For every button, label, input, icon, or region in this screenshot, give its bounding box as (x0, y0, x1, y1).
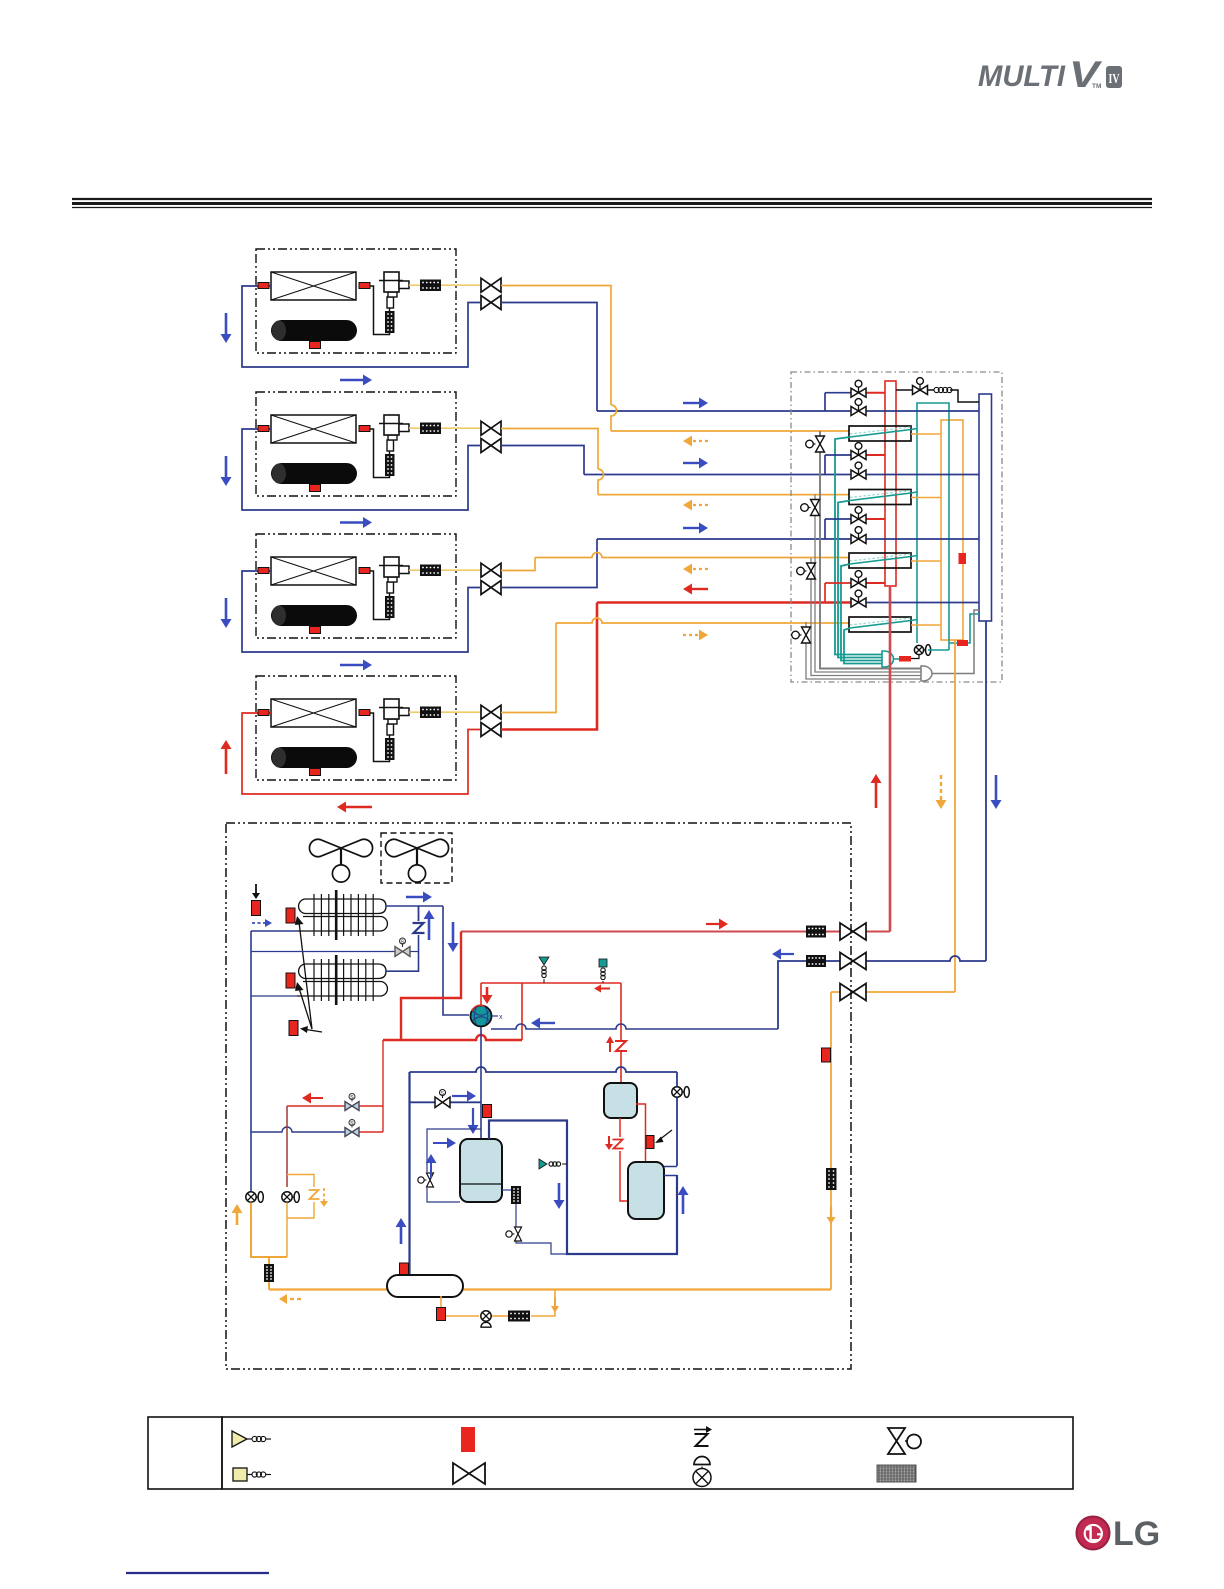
indoor unit 4 liquid pipe to valve (441, 711, 480, 713)
outdoor liquid line (831, 991, 840, 993)
legend check valve symbol (693, 1469, 711, 1487)
unit 1 gas trunk wire (501, 303, 597, 412)
indoor unit 1 heat exchanger (271, 272, 356, 300)
triple horizontal rule (72, 198, 1152, 200)
indoor unit 4 fan cylinder (271, 747, 357, 768)
oil return loop wire (489, 1121, 677, 1255)
defrost solenoid 1 valve (345, 1102, 359, 1111)
flow arrow main liquid (287, 1298, 301, 1300)
oil check valve left (246, 1192, 256, 1202)
indoor unit 3 EEV (389, 593, 391, 596)
HR branch 3 LP solenoid valve (851, 535, 866, 544)
indoor unit 1 liquid strainer (420, 280, 441, 292)
accumulator outlet EEV (515, 1227, 522, 1241)
HR branch 3 EEV (807, 563, 816, 579)
outdoor LP line (866, 956, 986, 961)
sensor on vessel wire B (646, 1136, 654, 1149)
vessel column riser wire (676, 1072, 678, 1086)
vessel1 to vessel2 wire A (619, 1118, 621, 1137)
indoor unit 3 gas service valve (481, 581, 501, 595)
outdoor LP strainer (806, 955, 826, 967)
flow arrow HP trunk (875, 783, 878, 808)
compressor (471, 1006, 492, 1027)
outdoor check valve Z (418, 906, 420, 921)
compressor tail x (492, 1015, 498, 1017)
receiver drain valve (481, 1311, 491, 1321)
high pressure trunk wire (889, 586, 892, 932)
outdoor defrost solenoid valve (395, 947, 410, 957)
flow arrow accumulator inlet (472, 1108, 474, 1125)
oil capillary EEV Z (309, 1190, 320, 1199)
legend sensor symbol (461, 1427, 475, 1452)
indoor unit 3 pipe HX to strainer (370, 571, 390, 620)
indoor unit 1 pipe HX to strainer (370, 286, 390, 335)
flow arrow suction header (540, 1022, 555, 1024)
compressor discharge wire (480, 983, 482, 1005)
outdoor coil2 right wire (386, 952, 419, 971)
indoor unit 1 liquid pipe to valve (441, 284, 480, 286)
indoor unit 4 heat exchanger (271, 699, 356, 727)
flow arrow between unit 1 and 2 (340, 379, 363, 382)
indoor unit 1 sensor below cylinder (310, 342, 321, 349)
flow arrow liquid unit 4 (683, 634, 699, 636)
indoor unit 4 gas service valve (481, 723, 501, 737)
teal sensor square on discharge (599, 959, 607, 967)
flow arrow between unit 2 and 3 (340, 521, 363, 524)
teal sensor triangle on discharge (539, 957, 549, 965)
HR branch 1 liquid out wire (911, 433, 941, 435)
unit 4 gas trunk wire (501, 603, 597, 730)
indoor unit 4 sensor HX right (359, 710, 370, 716)
outdoor liquid service valve (840, 984, 866, 1001)
unit 3 liquid trunk wire (501, 558, 535, 571)
HR unit box (791, 372, 1002, 682)
accumulator level wire (427, 1129, 481, 1172)
flow arrow liquid unit 3 (692, 568, 708, 570)
unit 2 gas trunk wire (501, 446, 584, 475)
indoor unit 2 sensor HX right (359, 426, 370, 432)
flow arrow gas unit 2 (683, 462, 699, 464)
unit 1 liquid trunk wire (501, 286, 611, 406)
flow arrow suction drop (452, 922, 455, 943)
subcool vessel 1 (604, 1083, 637, 1118)
HR branch 1 EEV drop wire (820, 431, 921, 669)
receiver drop wire (408, 1072, 410, 1277)
legend left cell (148, 1417, 222, 1489)
indoor unit 3 gas pipe loop (242, 571, 480, 652)
indoor unit 3 heat exchanger (271, 557, 356, 585)
flow arrow level wire up (430, 1163, 432, 1178)
HR branch 4 wire to HP header (866, 582, 885, 584)
indoor unit 3 flow arrow down (225, 598, 228, 619)
indoor unit 3 liquid pipe to valve (441, 569, 480, 571)
outdoor fan 2 dashed box (381, 833, 452, 883)
HR branch 1 subcool HX (849, 426, 911, 441)
flow arrow receiver drain (554, 1297, 556, 1306)
indoor unit 4 flow arrow up (225, 749, 228, 774)
indoor unit 3 sensor HX right (359, 568, 370, 574)
HR branch 4 EEV drop wire (806, 622, 921, 679)
HR branch 3 wire to HP header (866, 518, 885, 520)
indoor unit 1 flow arrow down (225, 313, 228, 334)
indoor unit 2 liquid pipe to strainer (409, 427, 420, 429)
vessel1 EEV Z (615, 1041, 627, 1051)
liquid trunk wire (954, 640, 956, 992)
accumulator level EEV (427, 1173, 434, 1187)
HR branch 4 liquid out wire (911, 624, 941, 626)
indoor unit 4 liquid strainer (420, 707, 441, 719)
HR branch 2 liquid out wire (911, 497, 941, 499)
vessel2 outlet wires (664, 1166, 677, 1168)
flow arrow level wire right (433, 1142, 447, 1144)
flow arrow LP line (781, 953, 794, 955)
indoor unit 2 EEV strainer vertical (385, 454, 395, 476)
receiver tank (387, 1275, 463, 1297)
HR branch 2 HP solenoid valve (851, 451, 866, 460)
indoor unit 3 liquid strainer (420, 565, 441, 577)
indoor unit 2 pipe HX to strainer (370, 429, 390, 478)
oil return maroon wire (286, 1106, 288, 1187)
indoor unit 1 EEV (389, 308, 391, 311)
oil collect wires (251, 1203, 287, 1258)
HR branch 3 subcool HX (849, 553, 911, 568)
indoor unit 2 box (256, 392, 456, 496)
suction header wire (491, 1024, 778, 1029)
indoor unit 4 liquid pipe to strainer (409, 711, 420, 713)
outdoor sensor s2 (286, 908, 295, 923)
indoor unit 4 box (256, 676, 456, 780)
receiver drain strainer (508, 1311, 530, 1322)
oil capillary wire (287, 1175, 314, 1188)
flow arrow gas unit 3 (683, 527, 699, 529)
flow arrow on discharge header (601, 988, 610, 990)
flow arrow at accumulator solenoid (452, 1095, 467, 1097)
indoor unit 4 EEV (389, 735, 391, 738)
defrost solenoid 2 wire (251, 1127, 345, 1132)
HR branch 3 liquid out wire (911, 560, 941, 562)
HR branch 1 wire to LP header (866, 410, 979, 412)
indoor unit 1 gas service valve (481, 296, 501, 310)
indoor unit 1 sensor HX right (359, 283, 370, 289)
svg-text:x: x (499, 1014, 503, 1021)
legend thermistor gas symbol (232, 1431, 247, 1447)
compressor bottom wire (480, 1027, 482, 1139)
legend outer box (222, 1417, 1073, 1489)
flow arrow between unit 3 and 4 (340, 664, 363, 667)
HR teal OR-junction (882, 651, 894, 667)
legend valve symbol (453, 1463, 485, 1484)
defrost solenoid 2 valve (345, 1128, 359, 1137)
indoor unit 4 pipe HX to strainer (370, 713, 390, 762)
HR branch 2 wire to HP header (866, 454, 885, 456)
HR branch 4 drop wire (824, 583, 826, 603)
flow arrow gas unit 1 (683, 402, 699, 404)
HR branch 2 EEV (811, 500, 820, 516)
sensor at receiver drop (400, 1263, 409, 1277)
sensor on liquid line (822, 1048, 831, 1062)
outdoor coil 1 (299, 899, 386, 914)
flow arrow defrost 1 (311, 1097, 323, 1099)
outdoor defrost solenoid wire (251, 951, 395, 953)
HR sensor on subcool return (957, 640, 968, 646)
outdoor coil2 left stub wire (251, 995, 297, 997)
HR branch 4 wire to LP header (866, 602, 979, 604)
indoor unit 1 liquid service valve (481, 278, 501, 292)
oil-cool header wire (410, 1067, 678, 1072)
indoor unit 2 liquid strainer (420, 423, 441, 435)
HR branch 2 drop wire (824, 455, 826, 475)
indoor unit 1 gas pipe loop (242, 286, 480, 367)
outdoor fan 1 (341, 839, 373, 856)
accumulator inlet solenoid wire (410, 1101, 438, 1103)
HR branch 3 subcool teal wire (841, 564, 882, 661)
low pressure trunk wire (985, 621, 987, 961)
indoor unit 2 sensor HX left (258, 426, 269, 432)
MULTI V logo text (978, 54, 1103, 95)
legend strainer symbol (877, 1465, 916, 1482)
outdoor unit box (226, 823, 851, 1369)
outdoor HP strainer (806, 926, 826, 938)
HR branch 2 subcool teal wire (838, 501, 882, 658)
HR branch 2 wire to LP header (866, 474, 979, 476)
indoor unit 1 EEV strainer vertical (385, 311, 395, 333)
receiver drain wire (441, 1296, 479, 1316)
HR sensor on liquid header (959, 553, 967, 564)
flow arrow into compressor (486, 987, 489, 995)
svg-text:TM: TM (1092, 83, 1101, 90)
indoor unit 2 EEV (389, 451, 391, 454)
flow arrow gas unit 4 (692, 588, 708, 590)
MULTI V IV badge (1106, 66, 1122, 88)
accumulator inlet solenoid valve (435, 1097, 450, 1108)
teal sensor on oil loop (539, 1159, 547, 1169)
HR branch 3 HP solenoid valve (851, 515, 866, 524)
outdoor sensor annotation arrows (299, 922, 312, 1029)
HR branch 4 LP solenoid valve (851, 598, 866, 607)
subcool vessel 2 (628, 1162, 664, 1219)
HR gray OR-junction (921, 666, 932, 681)
indoor unit 4 sensor below cylinder (310, 769, 321, 776)
flow arrow below unit 4 (346, 806, 372, 809)
indoor unit 2 sensor below cylinder (310, 485, 321, 492)
indoor unit 3 fan cylinder (271, 605, 357, 626)
HR branch 3 drop wire (824, 519, 826, 539)
unit 3 gas trunk wire (501, 539, 597, 588)
HR bypass valve (896, 389, 913, 391)
oil drain valve on riser (672, 1087, 682, 1097)
unit 2 liquid trunk wire (501, 429, 598, 470)
outdoor HP service valve (840, 923, 866, 940)
vessel1 to vessel2 wire B (636, 1104, 646, 1162)
indoor unit 1 fan cylinder (271, 320, 357, 341)
indoor unit 2 fan cylinder (271, 463, 357, 484)
HR branch 4 subcool teal wire (844, 628, 882, 664)
HR branch 3 wire to LP header (866, 538, 979, 540)
HR high-pressure gas header (885, 381, 896, 586)
HR low-pressure gas header (979, 394, 992, 621)
discharge header wire (481, 982, 621, 984)
HR bypass capillary coil (927, 389, 934, 391)
flow arrow LP trunk (995, 775, 998, 800)
HR branch 1 drop wire (824, 393, 826, 411)
indoor unit 2 flow arrow down (225, 456, 228, 477)
indoor unit 3 sensor HX left (258, 568, 269, 574)
flow arrow receiver drop (400, 1227, 403, 1244)
main liquid line (269, 1288, 831, 1290)
flow arrow liquid unit 1 (692, 440, 708, 442)
HR sensor after teal junction (899, 656, 911, 662)
flow arrow riser up (682, 1195, 685, 1214)
unit 4 liquid trunk wire (501, 623, 556, 713)
indoor unit 3 EEV strainer vertical (385, 596, 395, 618)
indoor unit 3 liquid service valve (481, 563, 501, 577)
flow arrow oil loop down (558, 1183, 561, 1200)
svg-text:LG: LG (1113, 1515, 1160, 1553)
accumulator outlet strainer (511, 1186, 521, 1204)
flow arrow above coil1 right (406, 896, 423, 898)
oil check valve right (282, 1192, 292, 1202)
indoor unit 1 liquid pipe to strainer (409, 284, 420, 286)
outdoor sensor s4 (289, 1021, 298, 1036)
HR branch 3 EEV drop wire (811, 558, 921, 676)
flow arrow oil capillary (323, 1188, 325, 1201)
HR branch 2 EEV drop wire (815, 495, 921, 673)
flow arrow liquid trunk (940, 775, 942, 800)
legend EEV symbol (695, 1434, 709, 1446)
indoor unit 3 box (256, 534, 456, 638)
indoor unit 4 sensor HX left (258, 710, 269, 716)
indoor unit 3 sensor below cylinder (310, 627, 321, 634)
HR branch 1 LP solenoid valve (851, 407, 866, 416)
sensor on receiver drain (437, 1308, 446, 1321)
sensor on accumulator inlet (483, 1105, 492, 1118)
HR branch 2 LP solenoid valve (851, 470, 866, 479)
outdoor HP line (866, 931, 890, 933)
indoor unit 2 liquid service valve (481, 421, 501, 435)
indoor unit 2 gas pipe loop (242, 429, 480, 510)
HR subcool check valve (911, 655, 919, 659)
oil strainer (264, 1264, 274, 1282)
liquid-injection wire to vessel1 (620, 983, 622, 1040)
indoor unit 1 box (256, 249, 456, 353)
accumulator outlet strainer wire (502, 1189, 516, 1191)
outdoor LP service valve (840, 953, 866, 970)
LG logo emblem (1077, 1517, 1110, 1550)
HR subcool return wire (928, 649, 949, 651)
defrost solenoid 1 wire (287, 1105, 345, 1107)
outdoor fan 2 (417, 839, 449, 856)
flow arrow beside Z (428, 919, 431, 940)
indoor unit 1 sensor HX left (258, 283, 269, 289)
HR branch 1 subcool teal wire (835, 437, 882, 655)
outdoor gas left wire (251, 930, 297, 932)
liquid line strainer (826, 1168, 837, 1190)
HR branch 2 subcool HX (849, 490, 911, 505)
defrost riser wire (382, 1040, 384, 1132)
flow arrow HP line (706, 923, 719, 925)
HR branch 4 subcool HX (849, 617, 911, 632)
indoor unit 4 EEV strainer vertical (385, 738, 395, 760)
svg-text:MULTI: MULTI (978, 60, 1066, 93)
HR subcool gas loop (917, 403, 949, 650)
indoor unit 3 liquid pipe to strainer (409, 569, 420, 571)
HR branch 1 EEV (816, 436, 825, 452)
HR branch 1 HP solenoid valve (851, 388, 866, 397)
flow arrow oil collect (236, 1213, 239, 1225)
outdoor sensor s1 (252, 901, 261, 916)
HR branch 4 HP solenoid valve (851, 579, 866, 588)
indoor unit 4 gas pipe loop (242, 713, 480, 794)
HR branch 1 wire to HP header (866, 392, 885, 394)
footer blue line (126, 1572, 269, 1574)
indoor unit 2 liquid pipe to valve (441, 427, 480, 429)
outdoor suction drop wire (443, 906, 469, 1015)
hot gas service wire (401, 932, 461, 1041)
indoor unit 2 heat exchanger (271, 415, 356, 443)
outdoor coil1 right wire (386, 905, 443, 907)
flow arrow liquid line (830, 1206, 832, 1217)
indoor unit 2 gas service valve (481, 439, 501, 453)
accumulator (460, 1139, 502, 1202)
legend service valve symbol (888, 1428, 905, 1454)
outdoor sensor s3 (286, 973, 295, 988)
outdoor coil 2 (299, 964, 386, 979)
HR branch 4 EEV (802, 627, 811, 643)
svg-text:IV: IV (1109, 72, 1120, 87)
legend thermistor pipe symbol (233, 1468, 247, 1481)
blue dashed flow arrow at coil 1 (252, 922, 265, 924)
HR liquid header (941, 420, 963, 640)
flow arrow liquid unit 2 (692, 504, 708, 506)
indoor unit 4 liquid service valve (481, 705, 501, 719)
